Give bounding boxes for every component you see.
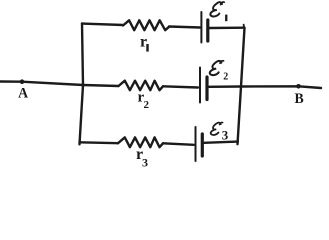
label EMF script-E 1 xyxy=(210,2,224,16)
svg-text:3: 3 xyxy=(222,127,229,142)
wire: top-right corner overshoot tick xyxy=(243,25,246,28)
label B xyxy=(295,91,305,108)
svg-text:B: B xyxy=(295,91,305,108)
resistor r1 xyxy=(123,20,169,30)
wire: left rail junction to resistor r2 xyxy=(83,85,119,86)
battery E3 : short thick plate xyxy=(201,134,204,156)
svg-text:2: 2 xyxy=(223,71,228,82)
svg-text:A: A xyxy=(18,85,29,102)
svg-text:r: r xyxy=(140,34,147,51)
wire: A lead from left edge to left rail xyxy=(0,82,83,86)
wire: right rail (vertical bus) xyxy=(238,28,245,144)
wire: battery E3 to right rail xyxy=(204,142,238,143)
node A (dot) xyxy=(20,79,25,84)
label E3 subscript 3 xyxy=(222,127,229,142)
battery E1 : short thick plate xyxy=(206,20,209,41)
wire: top branch, left corner to resistor r1 xyxy=(82,24,123,25)
svg-text:3: 3 xyxy=(142,156,148,170)
svg-text:2: 2 xyxy=(144,99,150,111)
battery (emf source) E3 : long plate xyxy=(195,127,197,161)
label EMF script-E 3 xyxy=(211,122,223,135)
wire: r1 to battery E1 xyxy=(169,27,200,28)
label EMF script-E 2 xyxy=(210,61,224,75)
wire: r3 to battery E3 xyxy=(163,143,194,145)
node B (dot) xyxy=(296,84,301,89)
wire: r2 to battery E2 xyxy=(163,86,198,87)
label r3 xyxy=(136,146,148,170)
wire: battery E1 to right rail xyxy=(210,27,245,30)
wire: bottom branch, left corner to resistor r3 xyxy=(80,141,119,144)
resistor r3 xyxy=(118,137,163,147)
label E1 subscript 1 xyxy=(225,15,227,22)
battery (emf source) E2 : long plate xyxy=(199,68,201,103)
label E2 subscript 2 xyxy=(223,71,228,82)
battery E2 : short thick plate xyxy=(205,77,208,100)
wire: battery E2 to right rail xyxy=(209,85,241,88)
label r1 xyxy=(140,34,149,52)
wire: right rail junction to node B and right edge xyxy=(241,86,321,88)
resistor r2 xyxy=(119,81,164,91)
battery (emf source) E1 : long plate xyxy=(200,12,202,43)
wire: left rail (vertical bus) xyxy=(80,23,84,144)
label r2 xyxy=(138,90,150,112)
label A xyxy=(18,85,29,102)
